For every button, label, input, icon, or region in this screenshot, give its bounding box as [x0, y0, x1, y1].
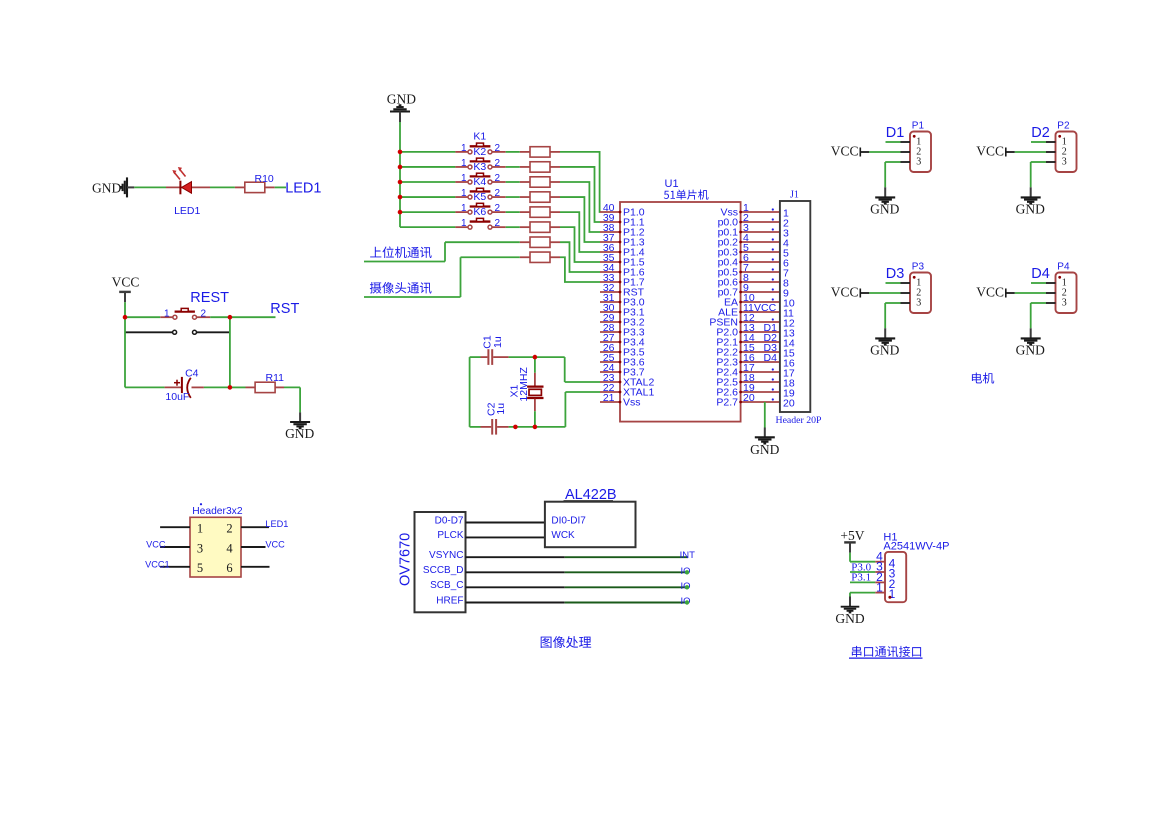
svg-text:3: 3	[197, 541, 203, 555]
svg-text:VCC: VCC	[831, 285, 859, 300]
svg-text:4: 4	[226, 541, 233, 555]
svg-text:R10: R10	[255, 173, 274, 185]
svg-text:J1: J1	[790, 189, 799, 200]
svg-text:3: 3	[916, 298, 921, 309]
svg-text:U1: U1	[665, 178, 679, 190]
svg-text:P1: P1	[912, 120, 925, 131]
svg-text:D0-D7: D0-D7	[435, 515, 464, 526]
svg-text:Header3x2: Header3x2	[192, 506, 243, 517]
svg-text:2: 2	[495, 173, 501, 184]
svg-text:K4: K4	[473, 176, 486, 188]
svg-text:6: 6	[226, 561, 232, 575]
svg-text:GND: GND	[870, 342, 899, 357]
svg-text:INT: INT	[680, 550, 696, 561]
svg-text:3: 3	[1062, 157, 1067, 168]
svg-text:VCC: VCC	[976, 285, 1004, 300]
svg-text:1: 1	[461, 218, 467, 229]
svg-text:1: 1	[461, 203, 467, 214]
svg-text:1: 1	[889, 587, 896, 601]
svg-text:A2541WV-4P: A2541WV-4P	[883, 541, 949, 553]
svg-text:D3: D3	[886, 266, 905, 282]
svg-text:1u: 1u	[495, 403, 507, 415]
svg-text:Header 20P: Header 20P	[776, 415, 823, 426]
svg-text:2: 2	[201, 308, 207, 319]
svg-text:1: 1	[461, 143, 467, 154]
svg-text:P2.7: P2.7	[716, 396, 738, 408]
svg-text:P4: P4	[1057, 261, 1070, 272]
svg-text:D4: D4	[1031, 266, 1050, 282]
svg-text:VCC: VCC	[265, 540, 285, 550]
svg-text:GND: GND	[92, 180, 121, 195]
svg-text:K5: K5	[473, 191, 486, 203]
svg-text:1: 1	[197, 522, 203, 536]
svg-text:Vss: Vss	[623, 396, 641, 408]
svg-text:5: 5	[197, 561, 203, 575]
svg-text:P3: P3	[912, 261, 925, 272]
svg-text:VCC1: VCC1	[145, 560, 170, 570]
svg-text:2: 2	[226, 522, 232, 536]
svg-text:K1: K1	[473, 131, 486, 143]
svg-text:1: 1	[164, 308, 170, 319]
svg-text:SCCB_D: SCCB_D	[423, 565, 464, 576]
svg-text:K2: K2	[473, 146, 486, 158]
svg-text:20: 20	[783, 398, 795, 410]
svg-text:1: 1	[461, 188, 467, 199]
svg-text:20: 20	[743, 392, 755, 404]
svg-text:VCC: VCC	[754, 302, 777, 314]
svg-text:1: 1	[461, 173, 467, 184]
svg-text:DI0-DI7: DI0-DI7	[551, 515, 586, 526]
svg-text:LED1: LED1	[265, 519, 288, 529]
svg-text:10uF: 10uF	[165, 391, 189, 403]
svg-text:RST: RST	[270, 301, 299, 317]
svg-text:21: 21	[603, 392, 615, 404]
svg-text:GND: GND	[870, 201, 899, 216]
svg-text:2: 2	[495, 143, 501, 154]
svg-text:D2: D2	[1031, 125, 1050, 141]
svg-text:PLCK: PLCK	[437, 530, 463, 541]
svg-text:SCB_C: SCB_C	[430, 580, 463, 591]
svg-text:P3.1: P3.1	[851, 572, 871, 584]
svg-text:P2: P2	[1057, 120, 1070, 131]
svg-text:+5V: +5V	[840, 528, 864, 543]
svg-text:3: 3	[1062, 298, 1067, 309]
svg-text:R11: R11	[266, 372, 285, 384]
svg-text:12MHZ: 12MHZ	[518, 367, 530, 402]
svg-text:3: 3	[916, 157, 921, 168]
svg-text:VCC: VCC	[831, 144, 859, 159]
svg-text:C4: C4	[185, 367, 199, 379]
svg-text:OV7670: OV7670	[398, 533, 414, 586]
svg-text:GND: GND	[1016, 342, 1045, 357]
svg-text:REST: REST	[190, 290, 229, 306]
svg-text:GND: GND	[1016, 201, 1045, 216]
svg-text:VSYNC: VSYNC	[429, 550, 463, 561]
svg-text:VCC: VCC	[976, 144, 1004, 159]
svg-text:HREF: HREF	[436, 595, 463, 606]
svg-text:1: 1	[461, 158, 467, 169]
svg-text:GND: GND	[835, 611, 864, 626]
svg-text:2: 2	[495, 158, 501, 169]
svg-text:LED1: LED1	[174, 205, 200, 217]
svg-text:GND: GND	[285, 426, 314, 441]
svg-text:D4: D4	[764, 352, 778, 364]
svg-text:D1: D1	[886, 125, 905, 141]
svg-text:GND: GND	[750, 442, 779, 457]
svg-text:K6: K6	[473, 206, 486, 218]
svg-text:1u: 1u	[492, 336, 504, 348]
svg-text:VCC: VCC	[112, 275, 140, 290]
svg-text:K3: K3	[473, 161, 486, 173]
svg-text:LED1: LED1	[285, 181, 321, 197]
svg-text:2: 2	[495, 218, 501, 229]
svg-text:GND: GND	[387, 91, 416, 106]
svg-text:2: 2	[495, 203, 501, 214]
svg-text:VCC: VCC	[146, 540, 166, 550]
svg-text:1: 1	[876, 580, 883, 594]
svg-text:2: 2	[495, 188, 501, 199]
svg-text:WCK: WCK	[551, 530, 575, 541]
